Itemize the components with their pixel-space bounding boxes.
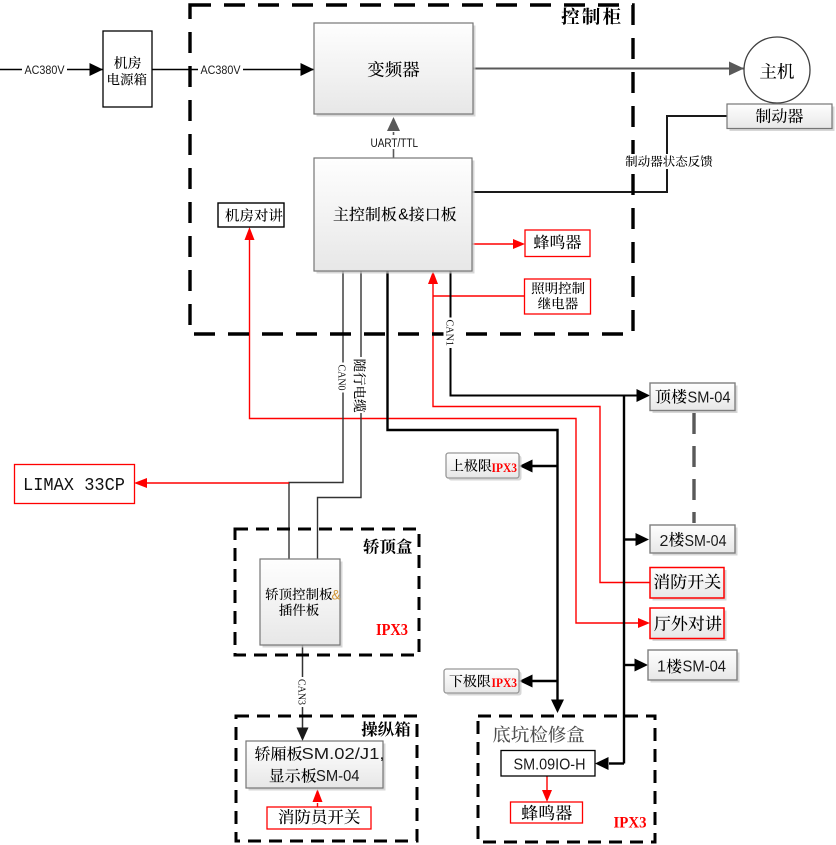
box upper limit 上极限 — [446, 453, 522, 481]
wire brake feedback — [472, 116, 727, 192]
arrowhead machine-room intercom up — [245, 227, 255, 240]
wire LIMAX red — [147, 482, 289, 484]
label 继电器 — [538, 297, 578, 310]
wire CAN3 — [302, 645, 304, 728]
label IPX3 lower — [492, 675, 518, 690]
box intercom 机房对讲 — [218, 203, 284, 227]
box lighting relay 照明控制继电器 — [525, 279, 591, 314]
box buzzer pit 蜂鸣器 — [511, 802, 583, 823]
wire AC380V input — [0, 69, 103, 71]
arrowhead hoist machine — [729, 62, 744, 76]
wire lower limit branch — [532, 680, 558, 682]
label 下极限 — [449, 674, 490, 687]
svg-text:1: 1 — [657, 658, 666, 675]
svg-text:AC380V: AC380V — [201, 65, 241, 77]
wire traveling cable — [318, 271, 362, 559]
box buzzer top 蜂鸣器 — [525, 230, 590, 257]
label 机房对讲 — [225, 208, 282, 221]
arrowhead pit buzzer down — [542, 790, 552, 802]
box hall intercom 厅外对讲 — [650, 608, 727, 641]
box lower limit 下极限 — [444, 669, 522, 696]
svg-text:UART/TTL: UART/TTL — [371, 138, 419, 150]
label 制动器 — [756, 108, 803, 123]
svg-text:SM-04: SM-04 — [683, 658, 727, 675]
dashed box pit inspection 底坑检修盒 — [478, 716, 655, 842]
label 轿厢板SM.02/J1, — [255, 746, 385, 763]
label IPX3 upper — [492, 460, 518, 475]
arrowhead hall intercom right — [638, 618, 650, 628]
label 厅外对讲 — [654, 616, 721, 632]
label AC380V right — [198, 63, 243, 77]
arrowhead 1F SM-04 — [635, 659, 649, 672]
label 主控制板&接口板 — [334, 207, 457, 224]
svg-text:IPX3: IPX3 — [614, 815, 647, 832]
label 1楼SM-04 — [657, 658, 726, 675]
label 蜂鸣器 top — [534, 235, 581, 250]
label 消防员开关 — [279, 809, 360, 824]
svg-text:SM.09IO-H: SM.09IO-H — [514, 757, 586, 774]
label 插件板 — [279, 604, 319, 616]
label AC380V left — [22, 63, 67, 77]
label 底坑检修盒 — [493, 725, 584, 742]
wire CAN0 — [289, 271, 343, 559]
box 1F 1楼SM-04 — [648, 650, 740, 683]
svg-text:CAN0: CAN0 — [336, 365, 348, 391]
wire fire-switch red riser — [433, 283, 650, 583]
circle hoist machine 主机 — [744, 37, 810, 103]
svg-text:CAN3: CAN3 — [296, 679, 308, 705]
label 主机 — [760, 63, 794, 79]
label 显示板SM-04 — [270, 768, 360, 785]
box main control board 主控制板&接口板 — [314, 158, 475, 274]
wire lighting relay red — [433, 295, 524, 297]
arrowhead AC380V cabinet — [301, 63, 315, 76]
label CAN1 — [444, 318, 458, 349]
svg-text:SM-04: SM-04 — [685, 533, 727, 550]
arrowhead fireman switch up — [313, 789, 323, 802]
wire CAN1 — [451, 271, 638, 396]
dashed box control cabinet 控制柜 — [190, 5, 633, 334]
label LIMAX 33CP — [23, 476, 125, 496]
label 机房 — [114, 56, 141, 69]
label UART/TTL — [367, 135, 421, 150]
label IPX3 pit — [614, 815, 647, 832]
box fireman switch 消防员开关 — [267, 807, 371, 829]
box LIMAX 33CP — [15, 465, 135, 504]
wire buzzer top red — [472, 243, 513, 245]
svg-text:LIMAX 33CP: LIMAX 33CP — [23, 476, 125, 496]
label SM.09IO-H — [514, 757, 586, 774]
box inverter 变频器 — [314, 23, 476, 117]
svg-text:&: & — [332, 588, 341, 603]
box SM.09IO-H — [501, 751, 595, 777]
wire upper limit branch — [532, 465, 558, 467]
svg-text:SM.02/J1,: SM.02/J1, — [302, 746, 385, 763]
arrowhead UART/TTL up — [387, 117, 400, 131]
label 控制柜 — [561, 7, 620, 24]
label 2楼SM-04 — [660, 532, 727, 550]
arrowhead car board down — [297, 728, 309, 742]
dashed box operation panel 操纵箱 — [236, 716, 417, 841]
svg-text:IPX3: IPX3 — [376, 620, 408, 639]
label 电源箱 — [108, 73, 146, 85]
dashed box car-top 轿顶盒 — [235, 529, 419, 655]
wire limit-switch trunk — [388, 271, 558, 700]
svg-text:CAN1: CAN1 — [444, 320, 456, 347]
box power supply 机房电源箱 — [103, 31, 152, 107]
wire inverter to hoist machine — [473, 68, 744, 70]
label 轿顶控制板& — [266, 588, 341, 603]
box car board 轿厢板SM.02/J1显示板SM-04 — [246, 741, 386, 791]
wire AC380V cabinet — [152, 69, 314, 71]
arrowhead main-board red up — [428, 271, 438, 284]
wire 1F branch — [624, 664, 635, 666]
dashed link top-floor to 2F — [692, 413, 695, 523]
arrowhead lower limit — [519, 675, 533, 688]
arrowhead upper limit — [519, 460, 533, 473]
wire CAN1 drop — [623, 396, 625, 764]
label 消防开关 — [654, 574, 721, 590]
label CAN0 — [336, 363, 350, 393]
label 照明控制 — [532, 282, 585, 294]
arrowhead top-floor SM-04 — [637, 389, 651, 402]
label 制动器状态反馈 — [625, 154, 713, 169]
wire pit buzzer red — [546, 776, 548, 790]
wire 2F branch — [624, 538, 636, 540]
arrowhead pit-box down — [551, 700, 564, 714]
label 上极限 — [450, 459, 491, 472]
svg-text:SM-04: SM-04 — [688, 389, 731, 406]
box top floor 顶楼SM-04 — [650, 383, 738, 413]
arrowhead buzzer top — [513, 239, 525, 249]
box car-top board 轿顶控制板&插件板 — [260, 559, 343, 648]
label 蜂鸣器 pit — [522, 805, 572, 821]
label 轿顶盒 — [363, 538, 412, 554]
label 顶楼SM-04 — [655, 389, 730, 406]
svg-text:2: 2 — [660, 533, 669, 550]
label 变频器 — [368, 61, 420, 77]
box fire switch 消防开关 — [650, 568, 727, 601]
label 操纵箱 — [362, 721, 411, 737]
arrowhead SM.09IO-H — [595, 757, 609, 770]
label IPX3 car-top — [376, 620, 408, 639]
wire fireman switch red — [317, 803, 319, 807]
wire SM.09IO-H branch — [609, 762, 624, 764]
label 随行电缆 — [354, 357, 369, 413]
box brake 制动器 — [727, 104, 835, 131]
wire UART/TTL — [393, 132, 395, 158]
svg-text:IPX3: IPX3 — [492, 460, 518, 475]
arrowhead LIMAX left — [134, 478, 147, 488]
label CAN3 — [296, 677, 310, 707]
svg-text:AC380V: AC380V — [25, 65, 65, 77]
svg-text:&: & — [398, 207, 409, 224]
box 2F 2楼SM-04 — [650, 525, 738, 556]
svg-text:IPX3: IPX3 — [492, 675, 518, 690]
arrowhead 2F SM-04 — [636, 533, 650, 546]
wire intercom red — [250, 240, 639, 623]
svg-text:SM-04: SM-04 — [316, 768, 360, 785]
arrowhead AC380V input — [90, 63, 104, 76]
